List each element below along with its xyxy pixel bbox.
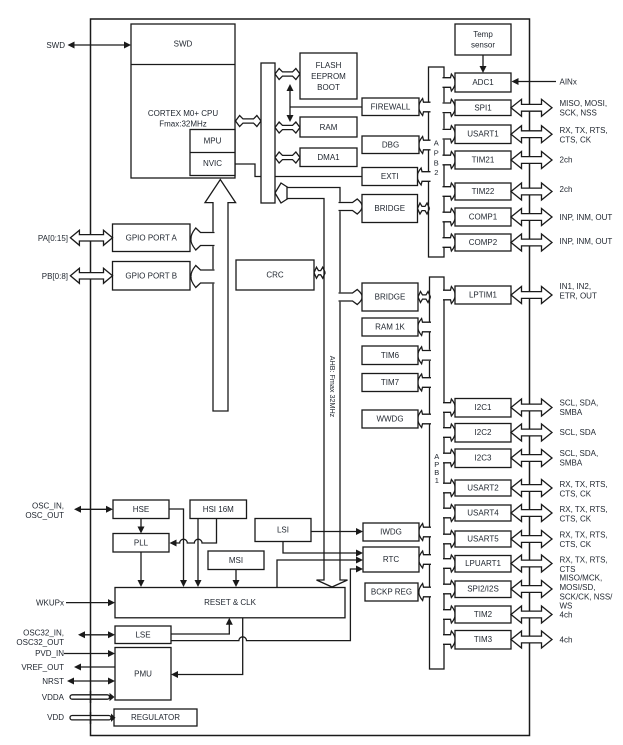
double arrow NRST pin (67, 678, 115, 685)
APB1 connector into RAM 1K (418, 319, 431, 336)
double arrow COMP2 external pins (511, 234, 552, 251)
svg-text:2: 2 (434, 168, 438, 177)
APB1 connector into LPTIM1 (443, 287, 455, 304)
svg-text:EEPROM: EEPROM (311, 72, 346, 81)
wire PLL to RESET-CLK (138, 552, 145, 587)
chip outer border (91, 19, 530, 736)
wire HSE to PLL (138, 519, 145, 534)
bus matrix bar (261, 63, 275, 203)
VDDA supply pin (70, 693, 115, 701)
svg-text:PLL: PLL (134, 538, 149, 547)
wire LSE to RTC with hop (171, 566, 363, 641)
svg-text:LSI: LSI (277, 526, 289, 535)
svg-text:CTS, CK: CTS, CK (560, 515, 592, 524)
svg-text:TIM3: TIM3 (474, 635, 493, 644)
svg-text:OSC32_IN,: OSC32_IN, (23, 629, 64, 638)
ADC1 block (455, 73, 511, 92)
DBG block (362, 136, 419, 154)
svg-text:4ch: 4ch (560, 635, 573, 644)
svg-text:2ch: 2ch (560, 155, 573, 164)
double arrow USART1 external pins (511, 126, 552, 143)
PLL block (113, 534, 169, 553)
double arrow PB port pins (70, 268, 112, 283)
svg-text:PB[0:8]: PB[0:8] (42, 272, 68, 281)
svg-text:Fmax:32MHz: Fmax:32MHz (159, 120, 207, 129)
svg-text:DMA1: DMA1 (317, 153, 340, 162)
svg-text:TIM6: TIM6 (381, 351, 400, 360)
svg-text:ADC1: ADC1 (472, 78, 494, 87)
VDD supply pin (70, 714, 116, 722)
DMA1 block (300, 148, 357, 167)
IWDG block (363, 523, 419, 541)
APB2 connector into COMP2 (443, 234, 456, 251)
svg-text:SPI2/I2S: SPI2/I2S (467, 585, 499, 594)
AHB arm into BRIDGE (APB1 bridge) (339, 290, 363, 305)
svg-text:SMBA: SMBA (560, 459, 583, 468)
svg-text:RX, TX, RTS,: RX, TX, RTS, (560, 505, 608, 514)
I2C3 block (455, 449, 511, 468)
svg-text:LPTIM1: LPTIM1 (469, 291, 498, 300)
AHB bus with arrow into matrix and arrow into RESET-CLK (287, 188, 348, 588)
svg-text:TIM21: TIM21 (472, 156, 495, 165)
RESET and CLK block (115, 588, 345, 618)
svg-text:PA[0:15]: PA[0:15] (38, 234, 68, 243)
APB1 connector into RTC (419, 551, 431, 568)
svg-text:FLASH: FLASH (316, 61, 342, 70)
APB1 connector into SPI2/I2S (443, 581, 455, 598)
svg-text:PVD_IN: PVD_IN (35, 649, 64, 658)
double arrow BRIDGE to APB1 (418, 292, 431, 303)
svg-text:LPUART1: LPUART1 (465, 559, 501, 568)
svg-text:REGULATOR: REGULATOR (131, 713, 180, 722)
APB1 connector into I2C2 (443, 424, 455, 441)
USART5 block (455, 531, 511, 547)
svg-text:PMU: PMU (134, 669, 152, 678)
svg-text:MSI: MSI (229, 556, 243, 565)
LPUART1 block (455, 556, 511, 573)
svg-text:VDDA: VDDA (42, 693, 65, 702)
wire NVIC to EXTI line (235, 164, 362, 177)
svg-text:SCL, SDA: SCL, SDA (560, 428, 597, 437)
APB1 connector into IWDG (419, 524, 431, 541)
I2C1 block (455, 399, 511, 418)
svg-text:TIM22: TIM22 (472, 187, 495, 196)
double arrow TIM21 external pins (511, 152, 552, 169)
svg-text:IN1, IN2,: IN1, IN2, (560, 282, 592, 291)
TIM7 block (362, 374, 418, 392)
svg-text:WKUPx: WKUPx (36, 599, 64, 608)
double arrow USART4 external pins (511, 505, 552, 522)
svg-text:EXTI: EXTI (381, 172, 399, 181)
HSI 16M block (190, 500, 247, 519)
MSI block (208, 551, 264, 570)
svg-text:2ch: 2ch (560, 185, 573, 194)
APB2 connector into DBG (419, 137, 431, 154)
Temp sensor block (455, 24, 511, 55)
APB1 connector into USART5 (443, 531, 455, 548)
chip border segment over VDDA pin (90, 691, 92, 724)
double arrow matrix to FLASH (275, 69, 300, 80)
HSE block (113, 500, 169, 519)
svg-text:USART2: USART2 (467, 484, 499, 493)
BRIDGE APB2 block (362, 195, 418, 223)
double arrow matrix to DMA1 (275, 152, 300, 163)
svg-text:OSC_OUT: OSC_OUT (25, 511, 64, 520)
svg-text:A: A (434, 139, 439, 148)
svg-text:LSE: LSE (135, 630, 150, 639)
LSE block (115, 626, 171, 644)
svg-text:CORTEX M0+ CPU: CORTEX M0+ CPU (148, 109, 219, 118)
vertical guard double arrow near FLASH/RAM (287, 84, 294, 122)
arrow VREF_OUT from PMU (74, 664, 115, 671)
svg-text:SCL, SDA,: SCL, SDA, (560, 449, 599, 458)
svg-text:B: B (434, 158, 439, 167)
svg-text:RESET & CLK: RESET & CLK (204, 598, 257, 607)
svg-text:ETR, OUT: ETR, OUT (560, 292, 597, 301)
svg-text:FIREWALL: FIREWALL (371, 103, 411, 112)
svg-text:NVIC: NVIC (203, 159, 222, 168)
IOPORT bus arrow up into CPU (205, 180, 236, 412)
svg-text:sensor: sensor (471, 41, 495, 50)
svg-text:HSI 16M: HSI 16M (203, 505, 234, 514)
svg-text:BCKP REG: BCKP REG (371, 588, 412, 597)
double arrow CRC to AHB (314, 267, 325, 278)
svg-text:GPIO PORT B: GPIO PORT B (125, 271, 177, 280)
TIM2 block (455, 606, 511, 623)
RTC block (363, 547, 419, 572)
double arrow OSC_IN OSC_OUT pins (74, 506, 113, 513)
APB2 connector into USART1 (443, 126, 456, 143)
APB1 connector into TIM2 (443, 606, 455, 623)
APB1 bus bar (430, 277, 445, 669)
double arrow TIM2 external pins (511, 606, 552, 623)
SPI2/I2S block (455, 581, 511, 598)
PMU block (115, 648, 171, 701)
APB1 connector into TIM7 (418, 374, 431, 391)
svg-text:IWDG: IWDG (380, 528, 402, 537)
wire HSI to PLL with hops (170, 519, 217, 547)
svg-text:I2C3: I2C3 (475, 454, 492, 463)
double arrow SPI1 external pins (511, 99, 552, 116)
svg-text:INP, INM, OUT: INP, INM, OUT (560, 237, 613, 246)
USART2 block (455, 480, 511, 496)
svg-text:INP, INM, OUT: INP, INM, OUT (560, 213, 613, 222)
svg-text:VDD: VDD (47, 713, 64, 722)
APB2 connector into COMP1 (443, 209, 456, 226)
svg-text:OSC_IN,: OSC_IN, (32, 501, 64, 510)
double arrow matrix to RAM (275, 122, 300, 133)
svg-text:BOOT: BOOT (317, 83, 340, 92)
wire LSI to RTC (283, 542, 363, 557)
WWDG block (362, 410, 418, 428)
svg-text:VREF_OUT: VREF_OUT (21, 663, 64, 672)
APB2 connector into ADC1 (443, 74, 456, 91)
svg-text:I2C2: I2C2 (475, 428, 492, 437)
svg-text:MISO/MCK,: MISO/MCK, (560, 574, 603, 583)
TIM22 block (455, 183, 511, 200)
APB2 connector into TIM21 (443, 152, 456, 169)
double arrow SPI2/I2S external pins (511, 581, 552, 598)
wire LSE to RESET-CLK (171, 618, 233, 634)
svg-text:SMBA: SMBA (560, 408, 583, 417)
double arrow PA port pins (70, 230, 112, 245)
double arrow OSC32 pins (78, 631, 115, 638)
svg-text:SCL, SDA,: SCL, SDA, (560, 398, 599, 407)
svg-text:WWDG: WWDG (376, 415, 403, 424)
CRC block (236, 260, 314, 290)
svg-text:MPU: MPU (204, 137, 222, 146)
double arrow I2C3 external pins (511, 450, 552, 467)
wire Temp sensor to ADC1 (480, 55, 487, 73)
svg-text:OSC32_OUT: OSC32_OUT (16, 638, 64, 647)
LSI block (255, 519, 311, 542)
svg-text:USART1: USART1 (467, 130, 499, 139)
FIREWALL block (362, 98, 419, 116)
svg-text:SWD: SWD (46, 41, 65, 50)
svg-text:RAM 1K: RAM 1K (375, 323, 405, 332)
svg-text:SPI1: SPI1 (474, 103, 492, 112)
APB2 connector into FIREWALL (419, 99, 431, 116)
wire HSI to RESET-CLK (195, 519, 202, 588)
COMP1 block (455, 208, 511, 226)
svg-text:BRIDGE: BRIDGE (375, 293, 406, 302)
wire AINx into ADC1 (512, 78, 557, 85)
svg-text:USART4: USART4 (467, 509, 499, 518)
svg-text:COMP2: COMP2 (469, 238, 498, 247)
svg-text:RX, TX, RTS,: RX, TX, RTS, (560, 126, 608, 135)
svg-text:WS: WS (560, 602, 573, 611)
I2C2 block (455, 424, 511, 443)
APB1 connector into USART2 (443, 480, 455, 497)
svg-text:TIM2: TIM2 (474, 610, 493, 619)
BRIDGE APB1 block (362, 283, 418, 311)
USART1 block (455, 125, 511, 144)
APB1 connector into WWDG (418, 411, 431, 428)
svg-text:RX, TX, RTS,: RX, TX, RTS, (560, 556, 608, 565)
wire FIREWALL to flash-ram guard (290, 106, 362, 108)
svg-text:MOSI/SD,: MOSI/SD, (560, 583, 596, 592)
APB2 connector into EXTI (417, 168, 430, 185)
svg-text:CTS, CK: CTS, CK (560, 490, 592, 499)
arrow WKUPx into RESET-CLK (66, 599, 115, 606)
TIM3 block (455, 631, 511, 650)
svg-text:I2C1: I2C1 (475, 403, 492, 412)
LPTIM1 block (455, 286, 511, 304)
svg-text:SCK, NSS: SCK, NSS (560, 109, 597, 118)
APB1 connector into I2C1 (443, 399, 455, 416)
double arrow USART5 external pins (511, 531, 552, 548)
double arrow BRIDGE to APB2 (418, 203, 430, 214)
double arrow LPTIM1 external pins (511, 287, 552, 304)
double arrow LPUART1 external pins (511, 555, 552, 572)
RAM 1K block (362, 318, 418, 336)
wire LSI to IWDG (311, 528, 363, 535)
svg-text:DBG: DBG (382, 141, 399, 150)
svg-text:GPIO PORT A: GPIO PORT A (126, 233, 178, 242)
BCKP REG block (365, 583, 418, 601)
APB1 connector into USART4 (443, 505, 455, 522)
svg-text:MISO, MOSI,: MISO, MOSI, (560, 99, 608, 108)
GPIO PORT B block (113, 262, 191, 291)
double arrow CPU to bus matrix (236, 116, 262, 127)
FLASH EEPROM BOOT block (300, 53, 357, 99)
TIM6 block (362, 346, 418, 365)
svg-text:AHB: Fmax 32MHz: AHB: Fmax 32MHz (328, 356, 337, 418)
APB1 connector into TIM6 (418, 347, 431, 364)
wire RESET-CLK to RTC (277, 557, 363, 588)
svg-text:AINx: AINx (560, 77, 577, 86)
AHB arm into BRIDGE (APB2 bridge) (339, 199, 363, 214)
double arrow TIM3 external pins (511, 631, 552, 648)
svg-text:CRC: CRC (266, 271, 284, 280)
TIM21 block (455, 151, 511, 169)
APB1 connector into I2C3 (443, 450, 455, 467)
svg-text:SCK/CK, NSS/: SCK/CK, NSS/ (560, 592, 614, 601)
IOPORT arm into GPIO PORT A (191, 228, 215, 250)
wire HSE to RESET-CLK (169, 509, 187, 587)
CPU block (131, 24, 235, 178)
wire RESET-CLK to PMU (171, 618, 243, 678)
USART4 block (455, 505, 511, 521)
IOPORT arm into GPIO PORT B (191, 266, 215, 288)
svg-text:BRIDGE: BRIDGE (374, 204, 405, 213)
svg-text:HSE: HSE (133, 505, 149, 514)
EXTI block (362, 168, 418, 186)
double arrow I2C1 external pins (511, 399, 552, 416)
svg-text:RAM: RAM (320, 123, 338, 132)
RAM block (300, 117, 357, 137)
APB2 connector into TIM22 (443, 183, 456, 200)
wire MSI to RESET-CLK (233, 570, 240, 588)
svg-text:USART5: USART5 (467, 535, 499, 544)
svg-text:1: 1 (435, 476, 439, 485)
arrow PVD_IN into PMU (64, 650, 115, 657)
svg-text:RX, TX, RTS,: RX, TX, RTS, (560, 480, 608, 489)
MPU NVIC divider (190, 152, 235, 154)
AHB arrow head into bus matrix (275, 183, 288, 203)
svg-text:4ch: 4ch (560, 610, 573, 619)
double arrow TIM22 external pins (511, 183, 552, 200)
APB2 bus bar (429, 67, 445, 257)
APB1 connector into TIM3 (443, 631, 455, 648)
svg-text:RTC: RTC (383, 555, 400, 564)
CPU SWD divider (131, 64, 235, 66)
svg-text:CTS, CK: CTS, CK (560, 540, 592, 549)
svg-text:SWD: SWD (174, 40, 193, 49)
COMP2 block (455, 234, 511, 251)
APB1 connector into BCKP REG (419, 584, 431, 601)
APB2 connector into SPI1 (443, 99, 456, 116)
APB1 connector into LPUART1 (443, 555, 455, 572)
svg-text:NRST: NRST (42, 677, 64, 686)
svg-text:CTS, CK: CTS, CK (560, 136, 592, 145)
SPI1 block (455, 100, 511, 116)
REGULATOR block (114, 709, 197, 726)
double arrow COMP1 external pins (511, 209, 552, 226)
svg-text:Temp: Temp (473, 30, 493, 39)
svg-text:RX, TX, RTS,: RX, TX, RTS, (560, 531, 608, 540)
double arrow SWD pin (68, 42, 132, 49)
svg-text:P: P (434, 149, 439, 158)
double arrow USART2 external pins (511, 480, 552, 497)
GPIO PORT A block (113, 224, 191, 252)
svg-text:TIM7: TIM7 (381, 378, 400, 387)
MPU and NVIC block (190, 130, 235, 176)
double arrow I2C2 external pins (511, 424, 552, 441)
svg-text:COMP1: COMP1 (469, 213, 498, 222)
